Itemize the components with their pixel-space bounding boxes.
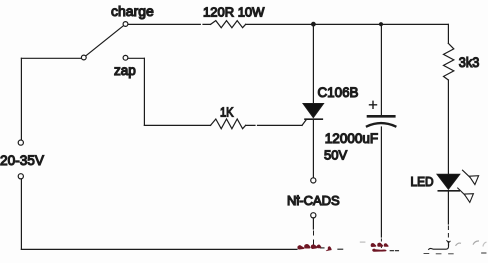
terminal circle lower Ni-CADS: [311, 213, 316, 218]
wire bottom remnant hook near LED: [429, 244, 449, 249]
wire below lower terminal: [312, 218, 314, 229]
switch SW1 zap throw terminal: [123, 55, 128, 60]
resistor R3 3k3: [444, 43, 454, 80]
svg-text:120R 10W: 120R 10W: [203, 5, 265, 20]
watermark remnant gray scribbles right: [360, 241, 487, 247]
wire bottom rail: [21, 248, 297, 250]
wire gate diagonal into cathode bar: [302, 119, 307, 125]
wire dashed remnant below LED: [447, 226, 449, 246]
thyristor cathode bar: [305, 118, 322, 120]
wire LED cathode down: [447, 192, 449, 224]
wire zap to 1K resistor: [144, 124, 210, 126]
switch SW1 lever: [86, 26, 123, 56]
wire top SCR node to capacitor node: [313, 23, 381, 25]
watermark remnant red cluster left: [297, 244, 331, 251]
LED D1 cathode bar: [438, 190, 459, 192]
wire bottom remnant dash 3: [390, 250, 398, 252]
wire top capacitor node to right corner: [381, 23, 448, 25]
wire 3k3 to LED anode: [447, 80, 449, 174]
svg-text:LED: LED: [411, 175, 434, 189]
LED light arrow 1 head: [469, 176, 478, 185]
wire top from charge terminal to 120R: [128, 23, 211, 25]
LED light arrow 1 tail: [463, 170, 471, 177]
wire top 120R to SCR anode node: [246, 23, 314, 25]
svg-text:C106B: C106B: [318, 84, 359, 100]
capacitor C1 negative lead: [380, 127, 382, 237]
capacitor C1 curved plate: [367, 123, 395, 126]
wire 1K to SCR gate: [246, 124, 302, 126]
wire remnant tick below LED column: [447, 241, 450, 243]
capacitor C1 top plate: [368, 115, 394, 118]
wire zap vertical down: [143, 58, 145, 125]
svg-text:12000uF: 12000uF: [325, 131, 378, 146]
resistor R1 120R 10W: [211, 21, 246, 28]
wire SCR anode vertical: [312, 24, 314, 103]
svg-text:1K: 1K: [220, 105, 234, 120]
wire left horizontal to switch pole: [21, 57, 81, 59]
svg-text:3k3: 3k3: [459, 55, 480, 70]
svg-text:zap: zap: [114, 63, 136, 78]
node junction dot at SCR anode column: [311, 22, 316, 27]
switch SW1 pole terminal: [81, 55, 86, 60]
wire bottom remnant dash 2: [338, 248, 343, 250]
wire right branch down to 3k3: [447, 24, 449, 43]
svg-text:20-35V: 20-35V: [0, 152, 45, 168]
svg-text:50V: 50V: [324, 148, 347, 163]
wire dashed remnant below Ni-CADS: [313, 231, 315, 245]
capacitor C1 positive lead: [380, 24, 382, 114]
capacitor C1 plus sign: [370, 101, 377, 108]
resistor R2 1K: [211, 119, 246, 129]
node junction dot at capacitor column: [379, 22, 383, 26]
svg-text:Ni-CADS: Ni-CADS: [287, 193, 340, 208]
wire zap terminal right: [128, 57, 144, 59]
switch SW1 charge throw terminal: [123, 22, 128, 27]
wire bottom remnant dash 1: [321, 247, 325, 249]
terminal circle supply positive: [18, 140, 23, 145]
wire SCR cathode down to terminal: [312, 120, 314, 178]
wire bottom remnant dashes right: [424, 252, 486, 255]
terminal circle supply negative: [18, 174, 23, 179]
wire dashed remnant below capacitor: [380, 239, 382, 248]
LED light arrow 2 tail: [458, 188, 465, 195]
terminal circle upper Ni-CADS: [311, 178, 316, 183]
watermark remnant red cluster middle: [371, 243, 389, 252]
wire left column lower: [20, 179, 22, 249]
svg-text:charge: charge: [111, 3, 154, 19]
thyristor U1 C106B triangle: [303, 104, 324, 118]
LED light arrow 2 head: [464, 194, 473, 203]
wire left column upper (switch to supply terminal): [20, 58, 22, 140]
LED D1 triangle: [437, 174, 460, 189]
